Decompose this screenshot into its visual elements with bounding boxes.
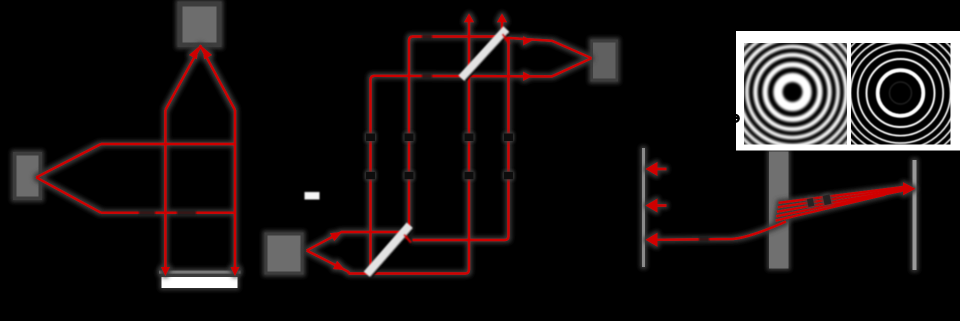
beam fragment on BS2 tip: [503, 34, 510, 44]
mark beam H1M: [422, 34, 432, 40]
beam fragment on BS1 tip: [404, 235, 411, 243]
mark V1 lower: [366, 172, 375, 180]
etalon multi-beam 2: [778, 188, 909, 208]
detector box (middle interferometer, right): [591, 40, 619, 82]
beam: etalon to screen curve: [654, 222, 786, 240]
beam: middle source divergence upper: [307, 232, 409, 251]
etalon multi-beam 4: [776, 191, 902, 216]
beam: left vertical arm 1: [164, 110, 166, 272]
node marker: white dash: [305, 192, 320, 200]
beamsplitter BS1 (bottom): [367, 225, 413, 276]
beam: left source divergence: [36, 144, 101, 213]
arrowhead: BS2 up: [497, 14, 507, 23]
mark beam H2M: [422, 73, 432, 79]
arrowhead: upper output right: [523, 36, 532, 45]
arrowhead: curve to screen: [646, 233, 658, 247]
etalon plate: [769, 152, 789, 269]
arrowhead: source diag upper: [330, 228, 344, 241]
screen plate: [642, 148, 645, 267]
stub ray arrow 1: [657, 168, 667, 171]
label fragment e: [732, 115, 739, 122]
fringe image: sharp rings: [823, 15, 960, 171]
beam: middle source divergence lower: [307, 251, 349, 274]
beamsplitter BS2 (top): [461, 29, 508, 81]
beam: arm V2 with top corner: [409, 37, 503, 231]
beam: left lower horizontal: [101, 211, 235, 213]
arrowhead: to detector left leg: [189, 45, 202, 59]
source box (middle interferometer): [265, 233, 304, 275]
mirror coating bar: [159, 271, 241, 274]
source box (left Michelson): [13, 152, 42, 200]
beam: arm V1 with top corner: [371, 58, 592, 273]
mark V4 upper: [504, 134, 513, 142]
etalon multi-beam 3: [777, 189, 909, 212]
etalon multi-beam 5: [776, 195, 885, 221]
arrowhead: source diag lower: [333, 261, 347, 274]
mark multibeam a: [807, 198, 815, 207]
arrowhead: stub 1: [646, 162, 658, 176]
mirror M (white slab): [162, 277, 238, 288]
arrowhead: lower output right: [523, 72, 532, 81]
arrowhead: to detector right leg: [199, 45, 212, 59]
beam: left upper horizontal: [101, 143, 235, 145]
etalon multi-beam 1: [779, 186, 910, 203]
stub ray arrow 2: [657, 204, 667, 207]
mark V1 upper: [366, 134, 375, 142]
arrowhead: stub 2: [646, 199, 658, 213]
mark multibeam b: [823, 194, 832, 205]
mark beam L lower left: [139, 210, 155, 216]
arrowhead: arm2 down to mirror: [231, 267, 240, 276]
mark V4 lower: [504, 172, 513, 180]
fringe image: sinusoidal rings: [716, 15, 870, 169]
arrowhead: arm1 down to mirror: [161, 267, 170, 276]
beam: BS2 output top to detector: [507, 38, 592, 58]
detector box (left Michelson, top): [178, 2, 222, 48]
mark V2 lower: [405, 172, 414, 180]
beam: BS2 up-arrow: [501, 16, 503, 33]
beam: converging legs to detector: [165, 46, 235, 110]
beam: left vertical arm 2: [234, 110, 236, 272]
beam: bottom transit to corner mirror: [349, 16, 470, 274]
panel background: [736, 31, 960, 151]
mark V3 upper: [465, 134, 474, 142]
mark V3 lower: [465, 172, 474, 180]
arrowhead: multibeam right: [903, 182, 916, 195]
mark curve arrow: [699, 237, 709, 243]
mark V2 upper: [405, 134, 414, 142]
reference flat: [913, 160, 917, 270]
mark beam L lower right: [177, 210, 196, 216]
beam: BS1 output to corner mirror: [413, 38, 509, 241]
arrowhead: V3 up: [464, 14, 474, 23]
